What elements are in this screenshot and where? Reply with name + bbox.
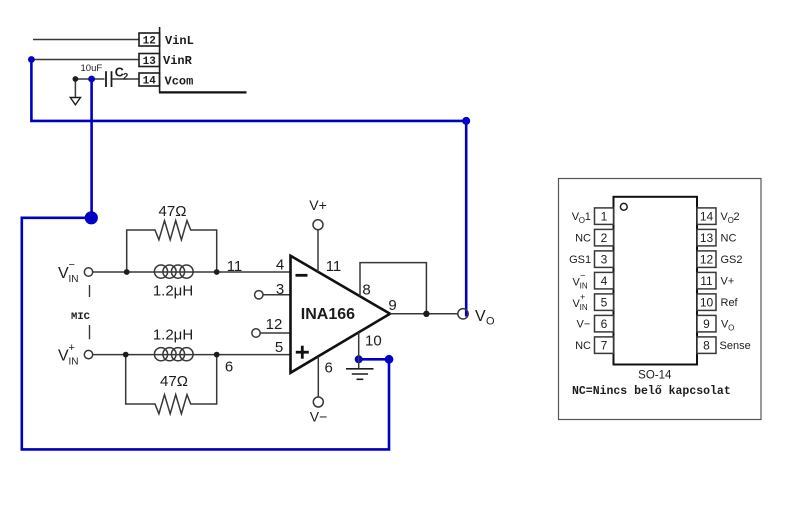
svg-text:GS2: GS2 xyxy=(721,254,743,266)
svg-text:4: 4 xyxy=(276,257,284,274)
svg-text:14: 14 xyxy=(700,210,714,224)
svg-text:2: 2 xyxy=(123,71,128,82)
svg-text:O: O xyxy=(486,316,495,328)
svg-text:3: 3 xyxy=(601,253,608,267)
svg-text:2: 2 xyxy=(734,211,740,223)
svg-text:GS1: GS1 xyxy=(569,254,591,266)
svg-text:12: 12 xyxy=(700,253,714,267)
svg-text:IN: IN xyxy=(69,274,79,285)
svg-text:SO-14: SO-14 xyxy=(638,370,672,382)
svg-text:7: 7 xyxy=(601,339,608,353)
svg-text:NC=Nincs belő kapcsolat: NC=Nincs belő kapcsolat xyxy=(572,385,731,398)
svg-text:NC: NC xyxy=(721,233,737,245)
svg-text:8: 8 xyxy=(362,282,370,299)
svg-text:NC: NC xyxy=(575,340,591,352)
svg-text:6: 6 xyxy=(325,360,333,377)
svg-text:+: + xyxy=(69,342,75,354)
svg-text:13: 13 xyxy=(143,56,157,68)
svg-text:IN: IN xyxy=(580,303,588,312)
svg-text:6: 6 xyxy=(601,317,608,331)
svg-text:V: V xyxy=(58,265,69,282)
svg-text:5: 5 xyxy=(275,339,283,356)
svg-text:2: 2 xyxy=(601,231,608,245)
svg-text:1: 1 xyxy=(585,211,591,223)
svg-text:6: 6 xyxy=(225,359,233,376)
svg-text:14: 14 xyxy=(143,76,157,88)
svg-text:13: 13 xyxy=(700,231,714,245)
svg-text:1: 1 xyxy=(601,210,608,224)
svg-text:11: 11 xyxy=(326,258,342,275)
svg-text:Ref: Ref xyxy=(721,297,739,309)
svg-text:V+: V+ xyxy=(309,197,327,213)
svg-text:V−: V− xyxy=(577,319,591,331)
svg-text:10: 10 xyxy=(700,296,714,310)
svg-text:11: 11 xyxy=(227,258,243,275)
svg-text:10uF: 10uF xyxy=(81,63,103,74)
svg-text:VinL: VinL xyxy=(165,34,194,48)
svg-text:V: V xyxy=(58,348,69,365)
svg-text:+: + xyxy=(580,292,585,302)
svg-text:V: V xyxy=(475,308,486,325)
svg-text:9: 9 xyxy=(703,317,710,331)
svg-text:1.2μH: 1.2μH xyxy=(153,283,193,300)
svg-text:Sense: Sense xyxy=(720,340,751,352)
svg-text:V−: V− xyxy=(310,409,328,425)
svg-text:1.2μH: 1.2μH xyxy=(153,327,193,344)
svg-text:V+: V+ xyxy=(721,276,735,288)
svg-text:11: 11 xyxy=(700,274,713,288)
svg-text:4: 4 xyxy=(601,274,608,288)
svg-text:8: 8 xyxy=(703,339,710,353)
svg-text:IN: IN xyxy=(69,357,79,368)
svg-text:12: 12 xyxy=(266,316,283,333)
svg-text:O: O xyxy=(728,324,734,333)
svg-text:47Ω: 47Ω xyxy=(159,203,187,220)
svg-text:IN: IN xyxy=(580,281,588,290)
svg-text:3: 3 xyxy=(276,281,284,298)
svg-text:5: 5 xyxy=(601,296,608,310)
svg-text:INA166: INA166 xyxy=(301,306,355,323)
svg-text:47Ω: 47Ω xyxy=(160,373,188,390)
svg-text:9: 9 xyxy=(388,297,396,314)
svg-text:NC: NC xyxy=(575,233,591,245)
svg-text:Vcom: Vcom xyxy=(165,74,194,88)
svg-text:MIC: MIC xyxy=(71,311,91,323)
svg-text:VinR: VinR xyxy=(163,54,193,68)
svg-text:10: 10 xyxy=(365,332,382,349)
svg-text:−: − xyxy=(580,271,585,281)
svg-text:−: − xyxy=(69,259,75,271)
svg-text:12: 12 xyxy=(143,36,156,48)
